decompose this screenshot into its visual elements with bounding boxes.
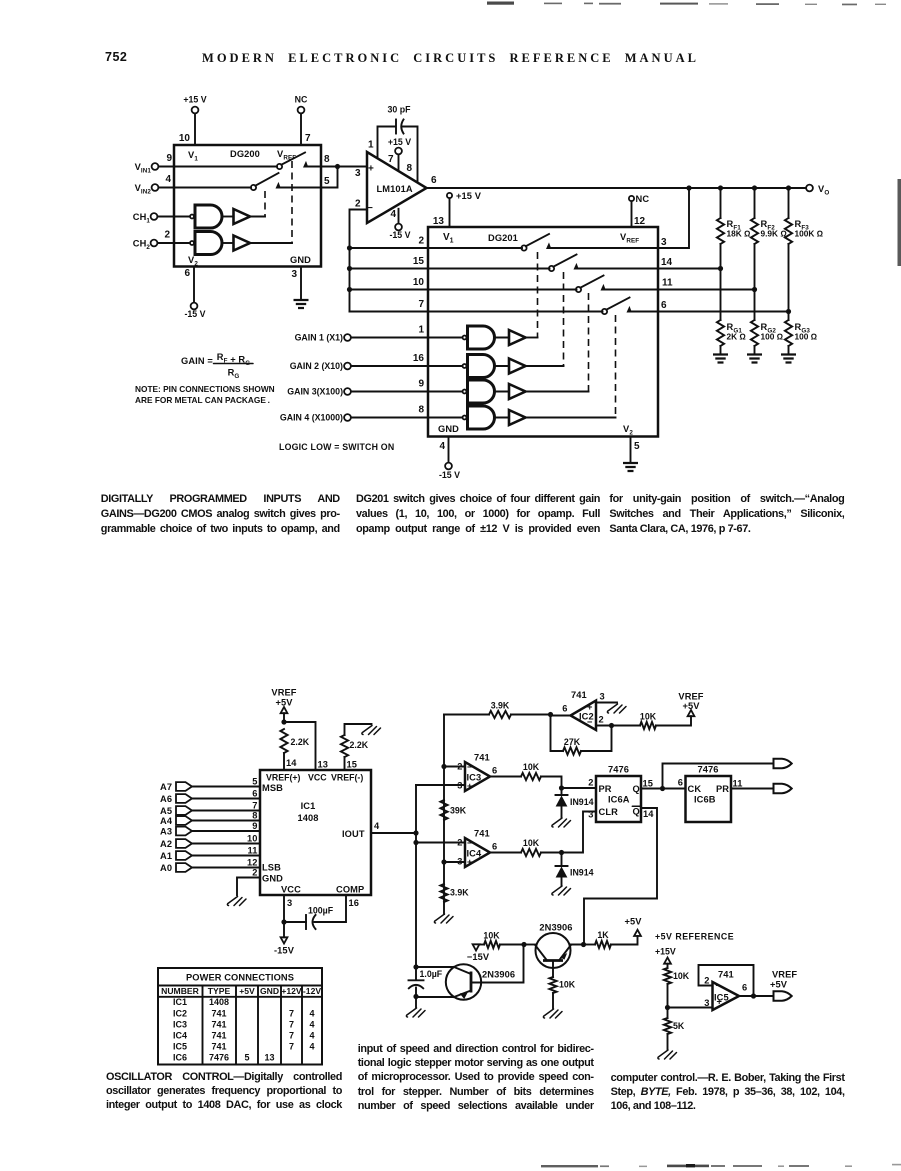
svg-text:39K: 39K	[450, 806, 467, 816]
wire 27K loop	[581, 726, 612, 752]
svg-text:DG200: DG200	[230, 149, 260, 159]
terminal -15V (U2 pin 4)	[395, 224, 402, 231]
capacitor C3 1.0uF	[409, 967, 424, 980]
wire R15 to ground	[552, 993, 554, 1008]
terminal GAIN2	[344, 363, 351, 370]
svg-text:+5V REFERENCE: +5V REFERENCE	[655, 932, 734, 942]
wire R11 to node	[541, 852, 562, 854]
svg-text:V1: V1	[188, 150, 198, 163]
svg-text:6: 6	[431, 175, 437, 186]
svg-text:14: 14	[643, 809, 654, 819]
svg-text:-15 V: -15 V	[184, 309, 205, 319]
terminal GAIN3	[344, 388, 351, 395]
analog switch U3 DG201 box	[428, 227, 658, 437]
svg-text:12: 12	[634, 216, 646, 227]
svg-text:RF + RG: RF + RG	[217, 352, 251, 367]
wire RG3 to gnd	[788, 346, 790, 354]
svg-text:GND: GND	[262, 874, 283, 884]
wire U2 pin4	[398, 209, 400, 224]
flip-flop IC6B 7476 box	[686, 776, 732, 822]
svg-text:+: +	[587, 702, 593, 712]
wire -15V to R14	[479, 944, 484, 946]
svg-text:Q: Q	[633, 807, 640, 817]
buffer B5	[509, 384, 526, 399]
DAC IC1 1408 box	[260, 770, 371, 895]
svg-text:3.9K: 3.9K	[450, 888, 469, 898]
svg-text:6: 6	[661, 300, 667, 311]
svg-text:Q: Q	[633, 784, 640, 794]
dashed control S6	[615, 315, 617, 418]
wire to IC3 plus	[416, 784, 465, 786]
svg-text:+15 V: +15 V	[388, 137, 411, 147]
wire R6 to ground	[345, 724, 372, 735]
svg-text:4: 4	[309, 1008, 314, 1018]
svg-text:741: 741	[571, 690, 587, 700]
node VREF	[281, 719, 286, 724]
wire U1 pin6	[193, 267, 195, 303]
gate G3 input circle	[463, 336, 467, 340]
svg-text:741: 741	[211, 1030, 226, 1040]
op-amp IC2 741	[571, 701, 597, 731]
svg-text:V1: V1	[443, 232, 454, 245]
ground IC1 pin2	[227, 897, 246, 906]
resistor RF1	[717, 218, 724, 244]
wire buffer B3 out	[526, 337, 538, 339]
wire U2 pin1 up	[378, 127, 396, 158]
svg-text:RG: RG	[228, 368, 240, 381]
svg-text:11: 11	[247, 846, 257, 856]
svg-text:13: 13	[318, 760, 329, 770]
svg-text:−15V: −15V	[467, 952, 490, 962]
op-amp U2 LM101A	[367, 152, 427, 223]
gate G6 input circle	[463, 416, 467, 420]
svg-text:741: 741	[474, 753, 490, 763]
svg-text:2: 2	[457, 838, 462, 848]
resistor R9 3.9K	[440, 884, 447, 902]
svg-text:14: 14	[661, 257, 673, 268]
svg-text:A4: A4	[160, 816, 173, 826]
svg-text:2: 2	[704, 976, 709, 986]
node IOUT	[413, 830, 418, 835]
wire U2 pin7	[398, 155, 400, 171]
wire Qbar feedback	[584, 808, 657, 945]
svg-text:NUMBER: NUMBER	[161, 986, 200, 996]
svg-text:3: 3	[600, 692, 605, 702]
wire G4 to buffer	[495, 365, 510, 367]
ground R6	[362, 726, 381, 735]
svg-text:10K: 10K	[559, 980, 576, 990]
terminal GAIN4	[344, 414, 351, 421]
svg-text:16: 16	[413, 353, 425, 364]
svg-text:6: 6	[492, 842, 497, 852]
svg-text:NC: NC	[636, 194, 650, 204]
svg-text:VREF: VREF	[620, 232, 639, 245]
wire IC5 out	[739, 995, 774, 997]
node RG2	[752, 287, 757, 292]
terminal NC (U1 pin 7)	[298, 107, 305, 114]
wire Q to output arrow	[663, 764, 774, 789]
svg-text:5: 5	[324, 176, 330, 187]
wire buffer B6 out	[526, 417, 616, 419]
svg-text:100K Ω: 100K Ω	[795, 229, 824, 239]
wire RF3 down	[788, 244, 790, 312]
svg-text:741: 741	[718, 970, 734, 980]
svg-text:1408: 1408	[297, 813, 318, 823]
wire to RG2	[754, 290, 756, 321]
svg-text:IN914: IN914	[570, 868, 594, 878]
svg-text:15: 15	[643, 779, 654, 789]
svg-text:VREF: VREF	[277, 149, 296, 162]
wire G6 to buffer	[495, 417, 510, 419]
transistor Q1 2N3906	[446, 964, 481, 999]
svg-text:TYPE: TYPE	[208, 986, 231, 996]
terminal -15V (U3 pin 4)	[445, 463, 452, 470]
svg-text:3: 3	[457, 857, 462, 867]
terminal +15V (U2 pin 7)	[395, 148, 402, 155]
svg-text:A0: A0	[160, 863, 172, 873]
svg-text:3: 3	[291, 269, 297, 280]
node PR	[559, 785, 564, 790]
wire RG1 to gnd	[720, 346, 722, 354]
ground C3	[406, 1008, 425, 1017]
ground RG3	[781, 355, 796, 363]
wire IC6B PR out	[731, 788, 774, 790]
output arrow 3	[774, 991, 792, 1001]
svg-text:IC3: IC3	[173, 1019, 187, 1029]
svg-text:741: 741	[474, 829, 490, 839]
svg-text:4: 4	[309, 1030, 314, 1040]
analog switch U1 DG200 box	[174, 145, 321, 267]
node bus pin10	[347, 287, 352, 292]
svg-text:VIN2: VIN2	[135, 183, 152, 196]
svg-text:+: +	[368, 164, 374, 175]
svg-text:+5V: +5V	[682, 701, 700, 711]
svg-text:5: 5	[634, 441, 640, 452]
svg-text:+15 V: +15 V	[456, 191, 482, 201]
output arrow 1	[774, 759, 792, 769]
svg-text:IOUT: IOUT	[342, 829, 365, 839]
svg-text:ARE FOR METAL CAN PACKAGE .: ARE FOR METAL CAN PACKAGE .	[135, 395, 270, 405]
dashed control S5	[588, 293, 590, 392]
svg-text:-15V: -15V	[274, 946, 295, 956]
svg-text:2.2K: 2.2K	[350, 740, 369, 750]
terminal NC (U3 pin 12)	[629, 196, 634, 201]
node IC2 feedback	[609, 723, 614, 728]
svg-text:NC: NC	[295, 95, 308, 105]
op-amp IC5 741	[713, 982, 740, 1010]
svg-text:1.0µF: 1.0µF	[420, 969, 443, 979]
svg-text:CK: CK	[688, 784, 702, 794]
svg-text:+15 V: +15 V	[183, 95, 206, 105]
transistor Q2 2N3906	[536, 933, 571, 968]
wire IOUT	[371, 832, 416, 834]
svg-text:3.9K: 3.9K	[491, 701, 510, 711]
switch S2	[251, 185, 256, 190]
svg-text:10K: 10K	[640, 712, 657, 722]
svg-text:A6: A6	[160, 794, 172, 804]
svg-text:IC6: IC6	[173, 1052, 187, 1062]
svg-text:3: 3	[457, 781, 462, 791]
node IOUT-IC4	[413, 840, 418, 845]
svg-text:VREF: VREF	[772, 970, 797, 980]
svg-text:6: 6	[184, 268, 190, 279]
svg-text:9.9K Ω: 9.9K Ω	[761, 229, 788, 239]
svg-text:11: 11	[733, 779, 743, 789]
svg-text:3: 3	[588, 810, 593, 820]
svg-text:7: 7	[388, 154, 394, 165]
wire R18 to ground	[667, 1034, 669, 1049]
resistor R14 10K	[484, 941, 500, 948]
wire IC3 out	[490, 776, 521, 778]
wire CH2 input	[158, 242, 191, 244]
svg-text:GAIN =: GAIN =	[181, 356, 213, 366]
svg-text:7: 7	[305, 133, 311, 144]
svg-text:CLR: CLR	[599, 807, 619, 817]
wire node to IC6A PR	[562, 787, 597, 789]
wire S3 out pin3 to output node	[548, 188, 689, 248]
node Q1 emitter	[413, 994, 418, 999]
gate G4 input circle	[463, 364, 467, 368]
wire to RF3	[788, 188, 790, 218]
svg-text:+: +	[467, 857, 473, 867]
svg-text:7: 7	[289, 1019, 294, 1029]
svg-text:GND: GND	[438, 424, 459, 434]
node pin3 cap	[281, 919, 286, 924]
resistor R16 1K	[595, 941, 611, 948]
resistor R8 39K	[440, 800, 447, 820]
ground RG1	[713, 355, 728, 363]
wire IC5 feedback	[699, 965, 754, 996]
wire pin15 to R6	[344, 757, 346, 770]
wire B1 output	[250, 216, 265, 218]
dashed control S4	[563, 272, 565, 366]
svg-text:VIN1: VIN1	[135, 162, 152, 175]
svg-text:10K: 10K	[673, 971, 690, 981]
resistor R15 10K	[549, 977, 556, 993]
AND gate G6	[468, 406, 495, 429]
svg-text:−: −	[716, 981, 722, 991]
wire A3	[192, 830, 260, 832]
wire A1	[192, 855, 260, 857]
switch S5	[576, 287, 581, 292]
svg-text:9: 9	[166, 153, 172, 164]
svg-text:-15 V: -15 V	[439, 470, 460, 480]
wire Q to IC6B	[641, 788, 686, 790]
wire IC4 out	[490, 852, 521, 854]
wire S5 out pin11 to RF2 node	[603, 289, 755, 291]
resistor R18 5K	[664, 1018, 671, 1034]
svg-text:10: 10	[247, 834, 258, 844]
resistor RG1	[717, 320, 724, 346]
svg-text:8: 8	[252, 811, 257, 821]
switch S6	[602, 309, 607, 314]
op-amp IC3 741	[465, 762, 490, 791]
svg-text:4: 4	[165, 174, 171, 185]
svg-text:2.2K: 2.2K	[291, 737, 310, 747]
node IC2 out	[548, 712, 553, 717]
resistor R10 10K	[521, 773, 541, 780]
svg-text:CH2: CH2	[133, 239, 151, 252]
svg-text:+5V: +5V	[770, 980, 788, 990]
wire IC2 out	[551, 715, 571, 717]
svg-text:GAIN 2 (X10): GAIN 2 (X10)	[290, 361, 343, 371]
svg-text:3: 3	[704, 998, 709, 1008]
wire S1 output pin 8	[306, 166, 338, 168]
svg-text:741: 741	[211, 1041, 226, 1051]
svg-text:LOGIC LOW = SWITCH ON: LOGIC LOW = SWITCH ON	[279, 442, 394, 452]
wire Q1 emitter	[416, 996, 454, 998]
svg-text:7: 7	[418, 299, 424, 310]
wire B2 output	[250, 242, 292, 244]
svg-text:11: 11	[662, 278, 673, 289]
svg-text:NOTE: PIN CONNECTIONS SHOWN: NOTE: PIN CONNECTIONS SHOWN	[135, 384, 275, 394]
terminal GAIN1	[344, 334, 351, 341]
capacitor C2 100uF	[305, 915, 307, 929]
wire A2	[192, 843, 260, 845]
svg-text:MSB: MSB	[262, 783, 283, 793]
resistor R13 27K	[563, 747, 581, 754]
svg-text:IC5: IC5	[173, 1041, 187, 1051]
wire U3 pin12	[631, 201, 633, 227]
buffer B4	[509, 359, 526, 374]
svg-text:100µF: 100µF	[308, 906, 334, 916]
svg-text:6: 6	[562, 704, 567, 714]
node IC5 out	[751, 993, 756, 998]
terminal VIN1	[152, 163, 159, 170]
wire R12 to VREF	[656, 716, 691, 725]
ground R18	[658, 1050, 677, 1059]
wire divider bus	[443, 715, 445, 915]
svg-text:2K Ω: 2K Ω	[727, 332, 747, 342]
wire GAIN2 input	[351, 365, 463, 367]
svg-text:2: 2	[418, 236, 424, 247]
resistor R11 10K	[521, 849, 541, 856]
svg-text:A2: A2	[160, 839, 172, 849]
svg-text:IC2: IC2	[173, 1008, 187, 1018]
svg-text:2: 2	[588, 778, 593, 788]
svg-text:8: 8	[406, 163, 412, 174]
svg-text:DG201: DG201	[488, 233, 518, 243]
resistor RF3	[785, 218, 792, 244]
svg-text:4: 4	[309, 1019, 314, 1029]
switch S3	[521, 245, 526, 250]
svg-text:10K: 10K	[523, 838, 540, 848]
resistor RG3	[785, 320, 792, 346]
node bus pin15	[347, 266, 352, 271]
svg-text:3: 3	[661, 237, 667, 248]
wire RF1 down	[720, 244, 722, 269]
wire node to Q2	[524, 944, 537, 946]
svg-text:3: 3	[355, 168, 361, 179]
switch S1	[277, 164, 282, 169]
svg-text:COMP: COMP	[336, 885, 364, 895]
wire A7	[192, 786, 260, 788]
wire CH1 input	[158, 216, 191, 218]
svg-text:1: 1	[368, 140, 374, 151]
svg-text:V2: V2	[623, 424, 633, 437]
svg-text:4: 4	[374, 821, 380, 831]
node RG1	[718, 266, 723, 271]
wire node to IC1 pin13	[284, 722, 316, 770]
svg-text:15: 15	[347, 760, 358, 770]
svg-text:GAIN 3(X100): GAIN 3(X100)	[287, 387, 343, 397]
svg-text:IC4: IC4	[173, 1030, 187, 1040]
node Q1 base / Q2 collector	[521, 942, 526, 947]
node switches common	[335, 164, 340, 169]
wire R17 to 5K	[667, 984, 669, 1018]
wire U2 output to VO	[427, 187, 807, 189]
terminal +5V	[634, 930, 641, 936]
wire R16 to +5V	[611, 936, 638, 945]
resistor R17 10K	[664, 968, 671, 984]
diode D2 IN914	[556, 853, 568, 867]
wire RF2 down	[754, 244, 756, 290]
wire Q1 collector	[416, 966, 454, 968]
wire IC2 pin2	[596, 725, 640, 727]
wire R10 to PR	[541, 777, 562, 789]
node bus IC3	[441, 764, 446, 769]
resistor R5 2.2K	[280, 729, 287, 753]
resistor R7 3.9K	[489, 711, 511, 718]
ground D2	[552, 886, 571, 895]
wire G3 to buffer	[495, 337, 510, 339]
svg-text:VCC: VCC	[308, 773, 327, 783]
wire node to IC6A CLR	[562, 812, 597, 853]
svg-text:A3: A3	[160, 827, 172, 837]
node bus pin2	[347, 245, 352, 250]
wire S2 output pin 5 up to node	[278, 167, 338, 188]
wire C1 to U2 pin8	[403, 127, 418, 183]
svg-text:-12V: -12V	[303, 986, 321, 996]
ground R15	[543, 1009, 562, 1018]
svg-text:PR: PR	[599, 784, 612, 794]
svg-text:10K: 10K	[523, 762, 540, 772]
buffer B2	[234, 236, 251, 251]
svg-text:6: 6	[678, 778, 683, 788]
wire A5	[192, 810, 260, 812]
wire VREF to node	[283, 713, 285, 722]
svg-text:IC1: IC1	[301, 801, 316, 811]
op-amp IC4 741	[465, 838, 490, 867]
node IC5 plus	[665, 1005, 670, 1010]
svg-text:6: 6	[742, 983, 747, 993]
svg-text:741: 741	[211, 1008, 226, 1018]
svg-text:4: 4	[309, 1041, 314, 1051]
wire Q2 emitter	[569, 944, 583, 946]
node output RF1	[718, 185, 723, 190]
wire A0	[192, 867, 260, 869]
svg-text:A1: A1	[160, 851, 172, 861]
wire G5 to buffer	[495, 391, 510, 393]
dashed control line ch1	[264, 191, 266, 217]
svg-text:CH1: CH1	[133, 212, 151, 225]
wire S6 out pin6 to RF3 node	[629, 311, 789, 313]
wire Q1 base	[471, 945, 524, 983]
svg-text:30 pF: 30 pF	[388, 105, 412, 115]
gate G2 input circle	[190, 241, 194, 245]
terminal -15V (R14)	[473, 944, 480, 950]
wire U1 pin7	[300, 114, 302, 146]
wire S4 out pin14 to RF1 node	[576, 268, 721, 270]
svg-text:−: −	[367, 203, 373, 214]
wire U3 pin15 row	[350, 268, 550, 270]
svg-text:7: 7	[252, 801, 257, 811]
wire U1 pin10	[194, 114, 196, 146]
flip-flop IC6A 7476 box	[596, 776, 641, 822]
wire RG2 to gnd	[754, 346, 756, 354]
buffer B3	[509, 330, 526, 345]
AND gate G5	[468, 380, 495, 403]
